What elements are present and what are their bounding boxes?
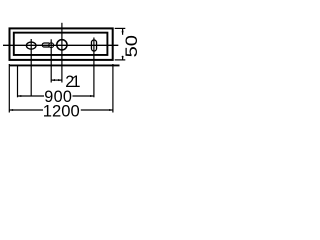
- 21 left arrowhead: [51, 79, 55, 81]
- 50 dimension line bottom segment: [122, 56, 124, 60]
- fixture inner panel rectangle: [14, 33, 108, 55]
- 1200 right extension line: [112, 64, 114, 113]
- 900 left extension line: [17, 66, 19, 98]
- 900 dimension line left segment: [18, 95, 45, 97]
- 900 right arrowhead: [90, 95, 94, 97]
- left mounting hole ellipse: [26, 42, 36, 49]
- 1200 left extension line: [8, 64, 10, 113]
- 1200 right arrowhead: [109, 109, 113, 111]
- left hole vertical centerline (crosses 900 dim): [30, 39, 32, 96]
- 21 dimension line: [51, 79, 62, 81]
- 900 dimension line right segment: [73, 95, 94, 97]
- center hole vertical centerline / 21-dim right extension: [61, 23, 63, 83]
- 50 top arrowhead: [122, 28, 124, 32]
- keyhole centerline / 21-dim left extension: [50, 39, 52, 82]
- 1200 dimension line right segment: [81, 109, 113, 111]
- 21 right arrowhead: [58, 79, 62, 81]
- keyhole slot left cap and sides: [42, 43, 49, 47]
- center screw hole circle: [57, 40, 67, 50]
- right mounting slot (vertical stadium): [91, 40, 96, 51]
- fixture outer housing rectangle: [10, 28, 113, 60]
- 50 bottom arrowhead: [122, 56, 124, 60]
- 50 top extension stub: [115, 27, 126, 29]
- 1200 dimension line left segment: [9, 109, 43, 111]
- horizontal centerline: [3, 44, 118, 46]
- svg-text:1200: 1200: [43, 102, 80, 121]
- right slot vertical centerline / 900 right extension: [93, 38, 95, 98]
- 900 left arrowhead: [18, 95, 22, 97]
- keyhole circle: [49, 43, 54, 48]
- 50 bottom extension stub: [115, 59, 126, 61]
- 50 dimension line top segment: [122, 28, 124, 34]
- 1200 left arrowhead: [9, 109, 13, 111]
- svg-text:50: 50: [123, 35, 141, 57]
- ceiling mounting surface line: [9, 64, 120, 66]
